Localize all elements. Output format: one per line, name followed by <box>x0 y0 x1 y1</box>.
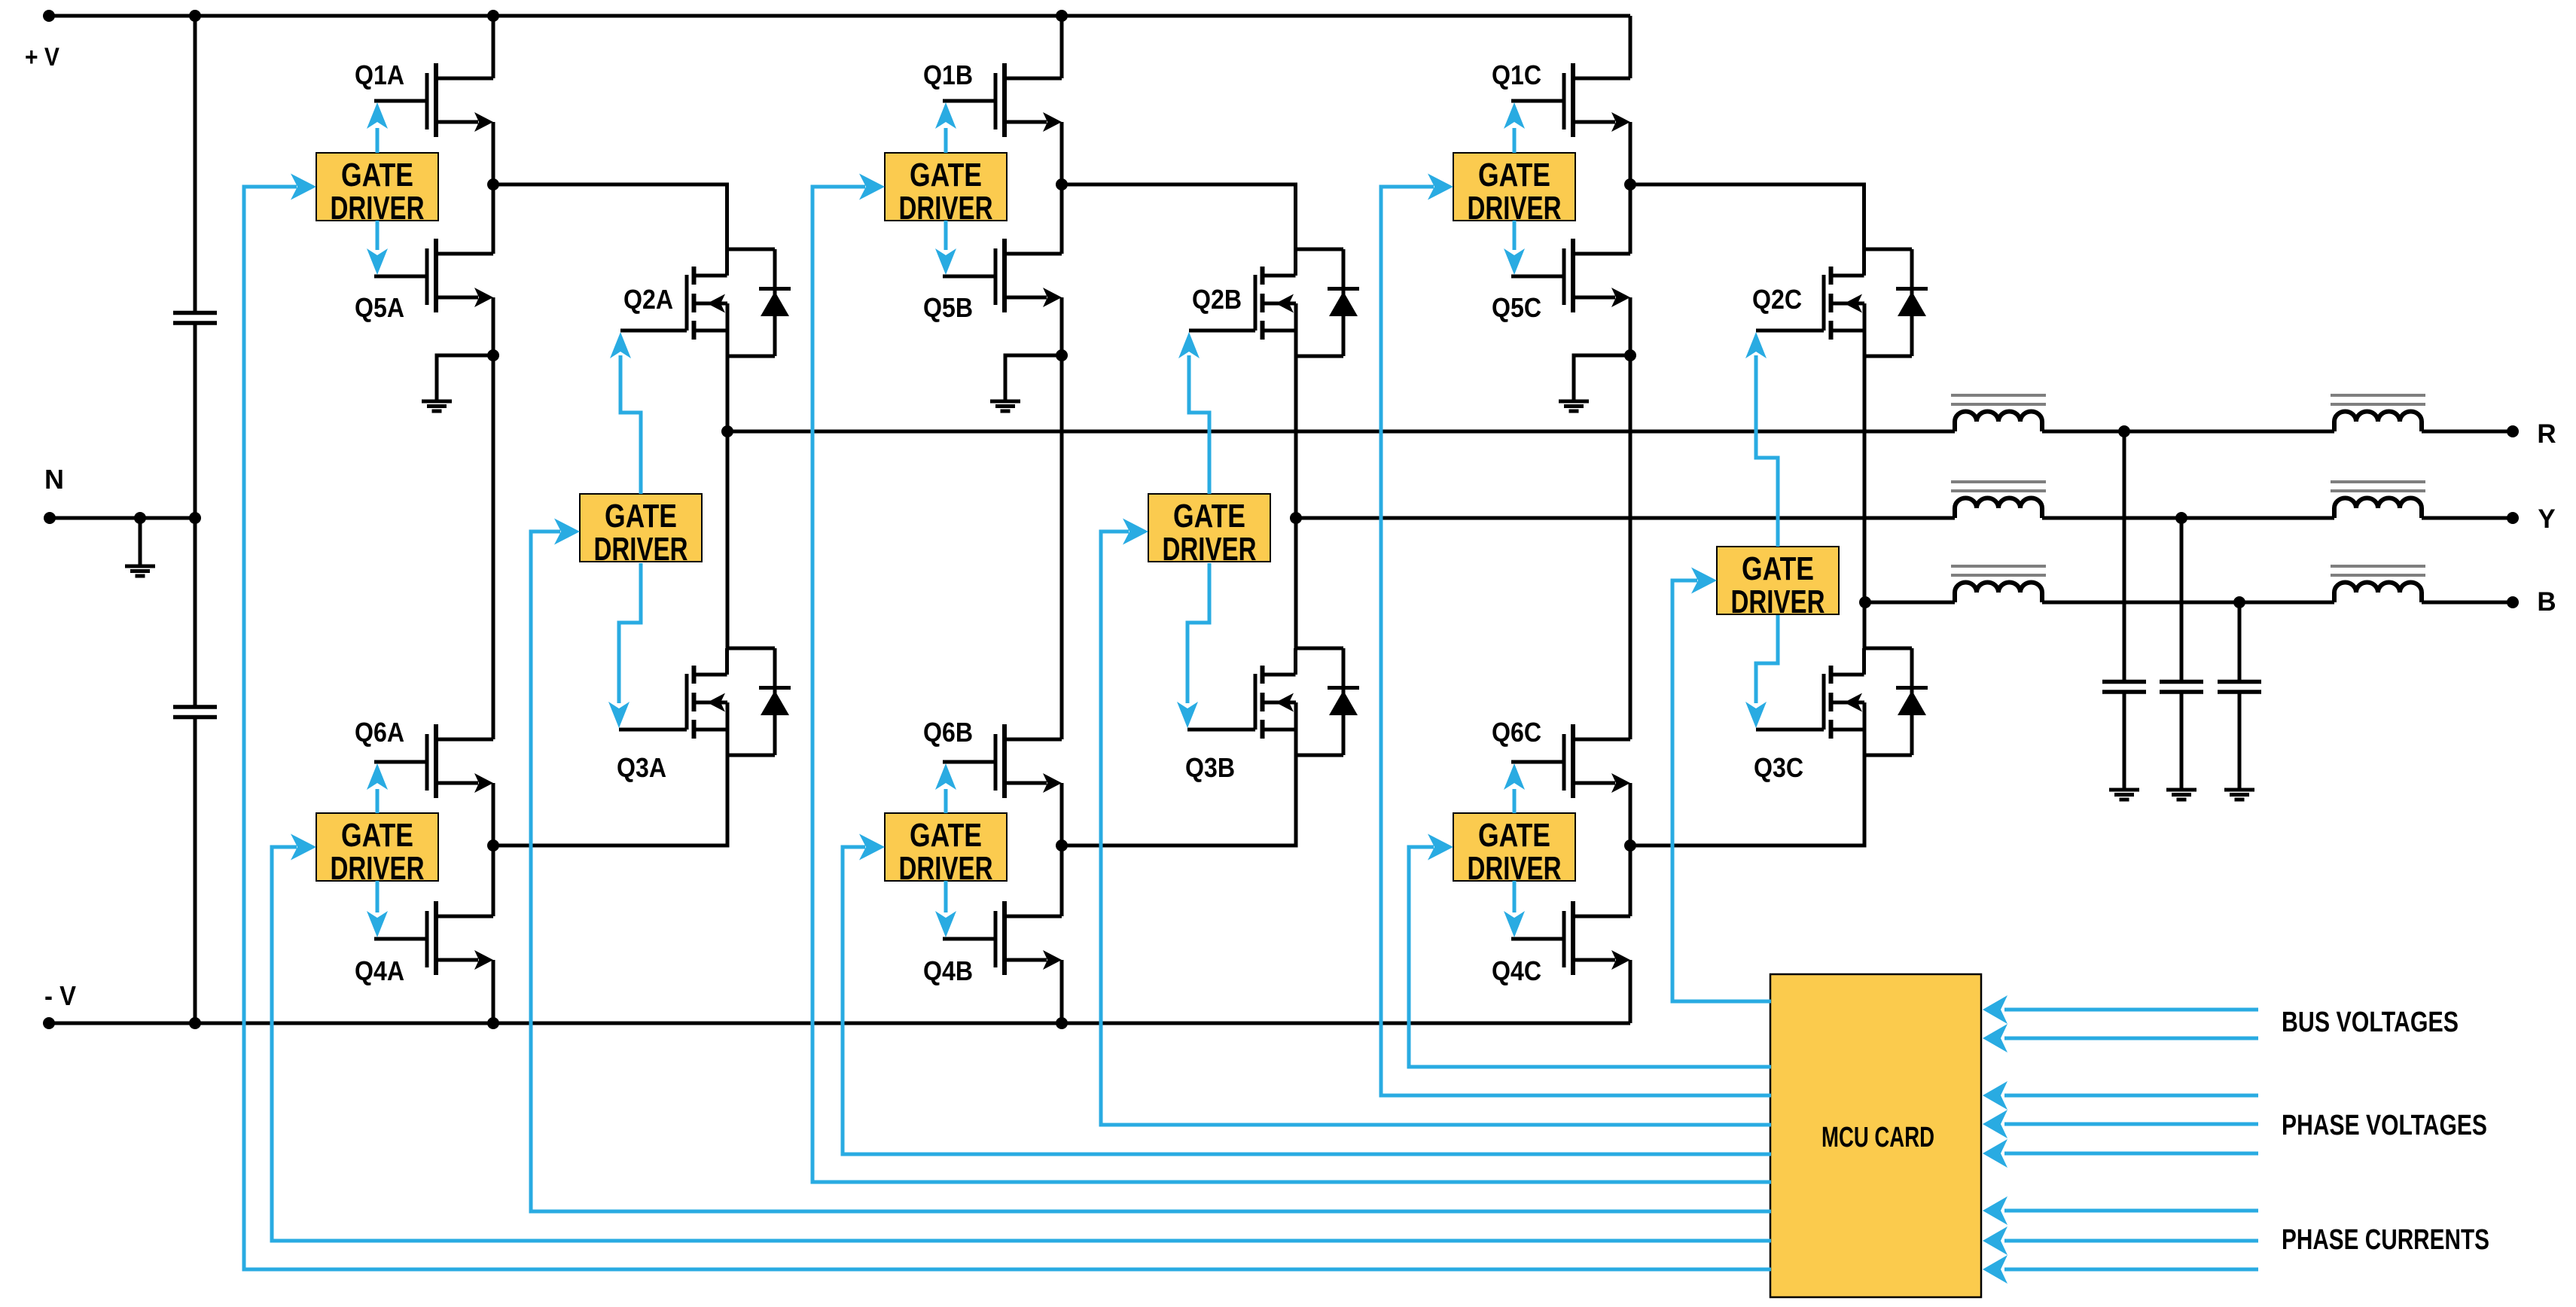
svg-text:Q2C: Q2C <box>1752 284 1802 315</box>
svg-text:BUS VOLTAGES: BUS VOLTAGES <box>2282 1007 2459 1038</box>
svg-text:Q2B: Q2B <box>1192 284 1242 315</box>
svg-text:- V: - V <box>44 980 76 1011</box>
svg-text:PHASE VOLTAGES: PHASE VOLTAGES <box>2282 1110 2487 1141</box>
svg-text:Q6C: Q6C <box>1492 717 1541 748</box>
svg-text:Q1B: Q1B <box>923 59 973 90</box>
svg-text:Q4A: Q4A <box>355 955 404 986</box>
svg-text:Q3C: Q3C <box>1754 752 1803 783</box>
svg-text:R: R <box>2537 419 2556 449</box>
svg-text:+ V: + V <box>25 43 59 72</box>
svg-text:PHASE CURRENTS: PHASE CURRENTS <box>2282 1224 2489 1256</box>
svg-text:Q5A: Q5A <box>355 292 404 323</box>
svg-text:Q5B: Q5B <box>923 292 973 323</box>
svg-text:B: B <box>2537 587 2556 617</box>
svg-text:Q4B: Q4B <box>923 955 973 986</box>
svg-text:Q3A: Q3A <box>617 752 666 783</box>
svg-text:Q1C: Q1C <box>1492 59 1541 90</box>
svg-text:Y: Y <box>2538 504 2555 534</box>
svg-text:Q3B: Q3B <box>1185 752 1235 783</box>
svg-text:Q5C: Q5C <box>1492 292 1541 323</box>
svg-text:Q6B: Q6B <box>923 717 973 748</box>
svg-text:Q4C: Q4C <box>1492 955 1541 986</box>
svg-text:N: N <box>44 464 64 495</box>
svg-text:Q6A: Q6A <box>355 717 404 748</box>
svg-text:MCU CARD: MCU CARD <box>1821 1122 1934 1153</box>
svg-text:Q2A: Q2A <box>623 284 673 315</box>
svg-text:Q1A: Q1A <box>355 59 404 90</box>
